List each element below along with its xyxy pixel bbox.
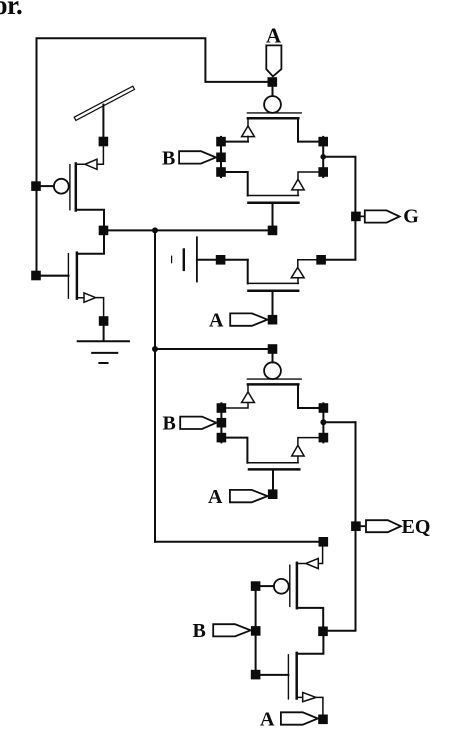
node G port square bbox=[351, 212, 361, 222]
transistor N3 right lead with triangle bbox=[292, 438, 319, 463]
wire B3 rail vertical upper bbox=[255, 591, 257, 626]
wire G net (tap to port and down to N2 drain) bbox=[323, 157, 355, 260]
wire nbar vertical rail x=155 bbox=[154, 230, 156, 541]
junction dot x155 mid bbox=[152, 346, 158, 352]
node N2 drain square bbox=[316, 255, 326, 265]
svg-text:EQ: EQ bbox=[402, 516, 431, 538]
transistor N2 gate stem bbox=[272, 291, 274, 315]
node TG2 left top square bbox=[217, 403, 227, 413]
wire P1 right lead to output square bbox=[298, 141, 318, 143]
port A2 (input, pointing right) bbox=[230, 313, 267, 325]
transistor P2 channel bar bbox=[248, 383, 298, 386]
transistor P0 (inverter PMOS) bubble bbox=[54, 179, 69, 194]
wire A node to pmos bubble bbox=[272, 87, 274, 96]
transistor N0 channel bar bbox=[76, 253, 79, 299]
node ground lead square bbox=[99, 316, 109, 326]
wire EQ tap to EQ rail bbox=[323, 421, 355, 423]
node TG1 left top square bbox=[216, 137, 226, 147]
battery symbol plates bbox=[171, 256, 173, 263]
transistor N3 gate bar bbox=[249, 468, 299, 471]
node TG2 right top square bbox=[319, 403, 329, 413]
wire inverter output to TG1 NMOS gate bbox=[108, 229, 267, 231]
transistor P3 bottom lead bbox=[297, 608, 323, 627]
transistor P2 (TG2 PMOS) bubble bbox=[264, 362, 281, 379]
transistor N1 right lead with triangle bbox=[292, 172, 319, 196]
node TG1 right top square bbox=[318, 137, 328, 147]
transistor P2 right lead bbox=[298, 386, 319, 409]
transistor N0 (inverter NMOS) gate bar bbox=[67, 254, 69, 299]
port B2 (input, pointing right) bbox=[180, 417, 216, 429]
node A4 port square bbox=[318, 715, 328, 725]
unrouted-arc slash symbol (vdd spine) bbox=[74, 86, 134, 120]
transistor N2 gate bar bbox=[248, 289, 298, 292]
port B1 (input, pointing right) bbox=[179, 151, 216, 163]
junction dot G tap bbox=[320, 154, 326, 160]
transistor N2 left lead bbox=[247, 260, 249, 284]
wire battery to node bbox=[197, 259, 216, 261]
transistor N3 left lead bbox=[226, 438, 247, 463]
transistor N4 bottom lead with triangle bbox=[297, 692, 323, 714]
transistor N2 channel bar bbox=[248, 282, 299, 284]
transistor P3 bubble bbox=[274, 579, 289, 594]
wire B2 fan vertical bbox=[220, 403, 222, 442]
svg-text:B: B bbox=[162, 147, 175, 169]
transistor P2 left lead with triangle bbox=[226, 386, 254, 409]
wire B1 to P1 left lead bbox=[226, 141, 248, 143]
node TG2 NMOS gate square bbox=[268, 489, 278, 499]
node TG2 right bottom square bbox=[319, 433, 329, 443]
transistor N4 top lead bbox=[297, 636, 324, 654]
transistor P2 gate bar bbox=[247, 378, 301, 380]
node B2 port square bbox=[217, 418, 227, 428]
node inverter PMOS gate square bbox=[31, 181, 41, 191]
wire square to ground bbox=[103, 326, 105, 341]
transistor P0 channel bar bbox=[75, 164, 78, 211]
wire P3 gate to B3 rail bbox=[260, 585, 274, 587]
svg-text:A: A bbox=[266, 24, 282, 48]
wire gate square to bubble bbox=[41, 185, 54, 187]
transistor P1 left source lead with triangle bbox=[242, 120, 255, 142]
transistor P3 channel bar bbox=[296, 563, 299, 608]
wire TG2 right fan vertical bbox=[322, 403, 324, 442]
transistor P3 gate bar bbox=[289, 565, 291, 606]
transistor P0 gate bar bbox=[69, 165, 71, 210]
ground symbol bbox=[78, 341, 129, 363]
node B3 port square bbox=[251, 626, 261, 636]
node EQ port square bbox=[351, 521, 361, 531]
wire net A (top-left loop from A port to left inverter gates) bbox=[37, 38, 268, 275]
transistor N1 left lead bbox=[226, 172, 248, 196]
node bottom pair top square bbox=[319, 537, 329, 547]
node TG2 PMOS gate square bbox=[268, 344, 278, 354]
node TG1 left bottom square bbox=[216, 167, 226, 177]
transistor N3 gate stem bbox=[272, 470, 274, 490]
transistor P1 channel bar bbox=[248, 117, 298, 120]
wire TG1 right fan vertical bbox=[322, 137, 324, 177]
wire square to TG2 bubble bbox=[272, 354, 274, 363]
svg-text:A: A bbox=[208, 486, 223, 508]
node TG1 right bottom square bbox=[318, 167, 328, 177]
wire B3 rail vertical lower bbox=[255, 636, 257, 670]
node N4 gate square bbox=[251, 670, 261, 680]
svg-text:A: A bbox=[260, 709, 275, 731]
transistor N0 bottom lead with triangle bbox=[77, 293, 104, 316]
node battery square bbox=[216, 255, 226, 265]
transistor P1 (TG1 PMOS) bubble bbox=[264, 96, 281, 113]
node EQ drive square bbox=[318, 627, 328, 637]
port G (output, pointing right) bbox=[361, 210, 400, 222]
transistor N3 (TG2 NMOS) channel bar bbox=[247, 462, 298, 464]
transistor N0 top lead bbox=[77, 235, 104, 253]
transistor N1 gate bar bbox=[248, 201, 298, 204]
wire N4 gate square to gate bar bbox=[260, 674, 288, 676]
transistor P3 (bottom PMOS) top lead with triangle bbox=[297, 547, 323, 569]
wire battery node to N2 source bbox=[225, 259, 247, 261]
wire EQ rail vertical bbox=[328, 422, 356, 631]
svg-text:B: B bbox=[193, 620, 206, 642]
node TG1 NMOS gate square bbox=[268, 226, 278, 236]
svg-text:A: A bbox=[209, 309, 224, 331]
transistor N4 channel bar bbox=[295, 653, 298, 699]
port A4 (input, pointing right) bbox=[281, 712, 318, 724]
transistor P0 bottom lead bbox=[76, 210, 104, 226]
transistor P1 gate bar bbox=[247, 112, 301, 114]
node inverter output square bbox=[99, 226, 109, 236]
transistor P0 top lead with triangle bbox=[76, 146, 104, 169]
port EQ (output, pointing right) bbox=[361, 520, 401, 532]
svg-text:G: G bbox=[403, 205, 419, 227]
node TG2 left bottom square bbox=[217, 433, 227, 443]
node P3 gate square bbox=[251, 581, 261, 591]
node B1 port square bbox=[216, 153, 226, 163]
port A (top, pointing down) bbox=[266, 45, 281, 76]
port B3 (input, pointing right) bbox=[213, 624, 250, 636]
node inverter NMOS gate square bbox=[31, 271, 41, 281]
junction dot EQ tap bbox=[320, 419, 326, 425]
wire gate square to N0 gate bar bbox=[41, 275, 69, 277]
svg-text:B: B bbox=[163, 413, 176, 435]
junction dot x155 top bbox=[152, 227, 158, 233]
wire slash to P0 source square bbox=[102, 105, 104, 137]
transistor N2 right lead with triangle bbox=[291, 260, 316, 284]
transistor N1 gate stem bbox=[272, 203, 274, 226]
transistor N1 (TG1 NMOS) channel bar bbox=[248, 195, 299, 197]
node A top junction square bbox=[268, 77, 278, 87]
svg-text:or.: or. bbox=[0, 0, 22, 20]
transistor P1 right drain lead bbox=[297, 120, 299, 142]
node N2 gate square bbox=[268, 315, 278, 325]
wire B1 fan vertical bbox=[220, 137, 222, 177]
node P0 source square bbox=[99, 137, 109, 147]
port A3 (input, pointing right) bbox=[230, 490, 268, 502]
transistor N4 (bottom NMOS) gate bar bbox=[287, 655, 289, 699]
wire nbar to bottom pair top bbox=[155, 541, 319, 543]
wire nbar tap to TG2 PMOS gate bbox=[155, 348, 268, 350]
